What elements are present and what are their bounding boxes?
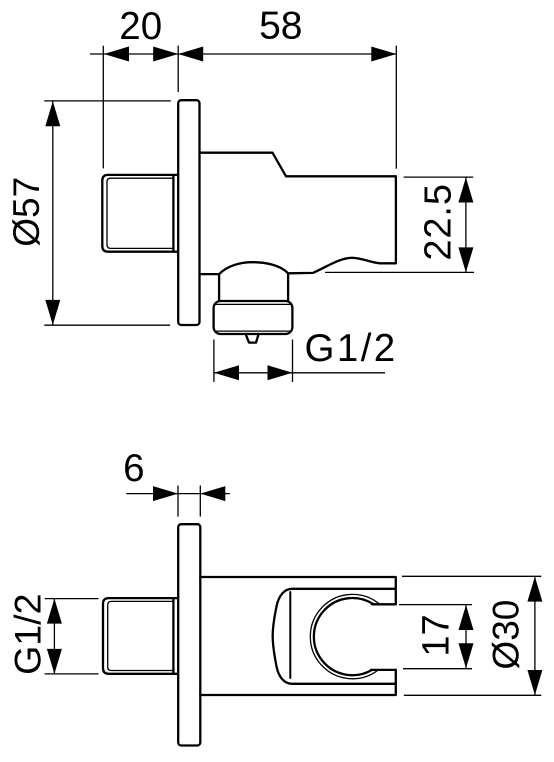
arrow up G1/2 bottom [47, 599, 62, 624]
holder socket inner arc [314, 598, 374, 675]
holder clip face tangent line [289, 592, 291, 678]
arrow right of dim 20 [153, 47, 178, 62]
dimension 17 line [465, 605, 467, 669]
arrow up D30 [527, 577, 542, 602]
dimension 22.5 line [465, 178, 467, 273]
extension line at flange left x=178.2 [177, 46, 179, 92]
dimension 17 extension top [399, 604, 472, 606]
arrow down D30 [527, 670, 542, 695]
svg-text:20: 20 [119, 5, 162, 48]
inlet thread G1/2 (top view) outer outline [102, 175, 178, 252]
outlet nut (top view) [214, 301, 293, 334]
dimension G1/2 (top) extension left [213, 340, 215, 383]
outlet neck right edge (top view) [287, 273, 289, 301]
svg-text:G1/2: G1/2 [305, 327, 398, 370]
dimension D30 extension bottom [404, 694, 542, 696]
outlet nut inner top line [215, 303, 292, 305]
dimension 17 extension bottom [403, 668, 472, 670]
dimension 22.5 extension top [404, 176, 474, 178]
svg-text:58: 58 [259, 5, 302, 48]
body outline (top view) [200, 153, 396, 274]
wall flange (top view) [178, 100, 199, 325]
svg-text:Ø57: Ø57 [6, 177, 47, 247]
arrow left G1/2 top [214, 365, 239, 380]
body backplate top/right (bottom view) [200, 577, 395, 604]
inlet thread end face line (bottom view) [172, 599, 174, 674]
extension line flange bottom [44, 324, 170, 326]
dimension G1/2 (bottom) line [53, 599, 55, 674]
extension line flange top [44, 100, 171, 102]
svg-text:22.5: 22.5 [417, 183, 459, 261]
holder clip bottom jaw line [371, 669, 396, 671]
svg-text:Ø30: Ø30 [486, 600, 527, 670]
dimension 20/58 line [90, 53, 397, 55]
dimension G1/2 (bottom) extension top [45, 598, 99, 600]
extension line at thread left x=103.3 [102, 46, 104, 169]
svg-text:6: 6 [123, 447, 144, 490]
outlet nut inner bottom line [215, 330, 292, 332]
svg-text:G1/2: G1/2 [6, 594, 48, 675]
dimension 22.5 extension bottom [325, 271, 474, 273]
arrow left of dim 20 [104, 47, 129, 62]
arrow down G1/2 bottom [47, 649, 62, 674]
extension line flange left (6) [177, 486, 179, 517]
arrow into flange right (6) [200, 486, 225, 501]
inlet thread root lines (top view) [107, 178, 173, 248]
outlet neck left edge (top view) [218, 274, 220, 301]
extension line at body right x=396.3 [395, 46, 397, 169]
inlet thread end face line (top view) [172, 176, 174, 252]
arrow down 17 [459, 643, 474, 668]
holder socket outer arc [310, 594, 379, 678]
inlet thread root lines (bottom view) [108, 601, 174, 670]
dimension G1/2 (top) line [214, 372, 385, 374]
body backplate bottom/right (bottom view) [200, 670, 395, 695]
dimension G1/2 (top) extension right [292, 340, 294, 383]
dimension D30 line [534, 576, 536, 695]
svg-text:17: 17 [415, 614, 457, 656]
holder clip outline (bottom view) [273, 589, 396, 684]
holder clip top jaw line [372, 603, 396, 605]
arrow down 22.5 [458, 247, 473, 272]
arrow up 22.5 [458, 178, 473, 203]
arrow right of dim 58 [371, 47, 396, 62]
arrow down D57 [45, 300, 60, 325]
dimension D30 extension top [402, 575, 541, 577]
arrow up 17 [459, 605, 474, 630]
dimension G1/2 (bottom) extension bottom [45, 673, 99, 675]
dimension D57 line [52, 102, 54, 326]
extension line flange right (6) [199, 486, 201, 517]
inlet thread G1/2 (bottom view) outer outline [103, 598, 178, 674]
outlet tip nub [246, 336, 258, 343]
arrow up D57 [45, 101, 60, 126]
dimension 6 line [126, 493, 230, 495]
arrow left of dim 58 [178, 47, 203, 62]
wall flange (bottom view) [178, 524, 200, 745]
arrow right G1/2 top [268, 365, 293, 380]
arrow into flange left (6) [153, 486, 178, 501]
